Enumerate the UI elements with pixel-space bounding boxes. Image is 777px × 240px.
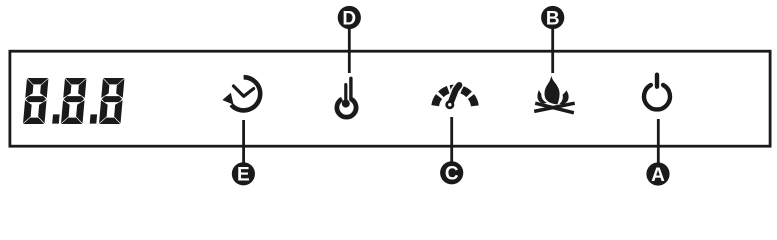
svg-text:E: E — [237, 165, 250, 186]
callout D — [338, 6, 361, 29]
panel outline — [10, 51, 770, 146]
svg-text:D: D — [342, 8, 356, 29]
leader line B — [551, 17, 554, 73]
leader line C — [450, 117, 453, 173]
leader line A — [657, 119, 660, 173]
timer icon (E) — [222, 77, 260, 110]
callout E — [232, 162, 255, 185]
callout C — [440, 161, 463, 184]
decimal point 1 — [52, 114, 59, 123]
decimal point 2 — [90, 114, 97, 123]
callout B — [541, 6, 564, 29]
campfire flame icon (B) — [534, 76, 575, 113]
leader line D — [348, 17, 351, 73]
power icon (A) — [644, 75, 670, 110]
display digit 1 (8) — [23, 78, 49, 124]
svg-text:B: B — [546, 8, 560, 29]
gauge icon (C) — [435, 85, 475, 109]
display digit 3 (8) — [99, 78, 125, 124]
display digit 2 (8) — [61, 78, 87, 124]
svg-text:A: A — [651, 165, 665, 186]
svg-text:C: C — [445, 164, 459, 185]
thermometer icon (D) — [337, 78, 356, 117]
leader line E — [242, 120, 245, 174]
callout A — [646, 162, 669, 185]
